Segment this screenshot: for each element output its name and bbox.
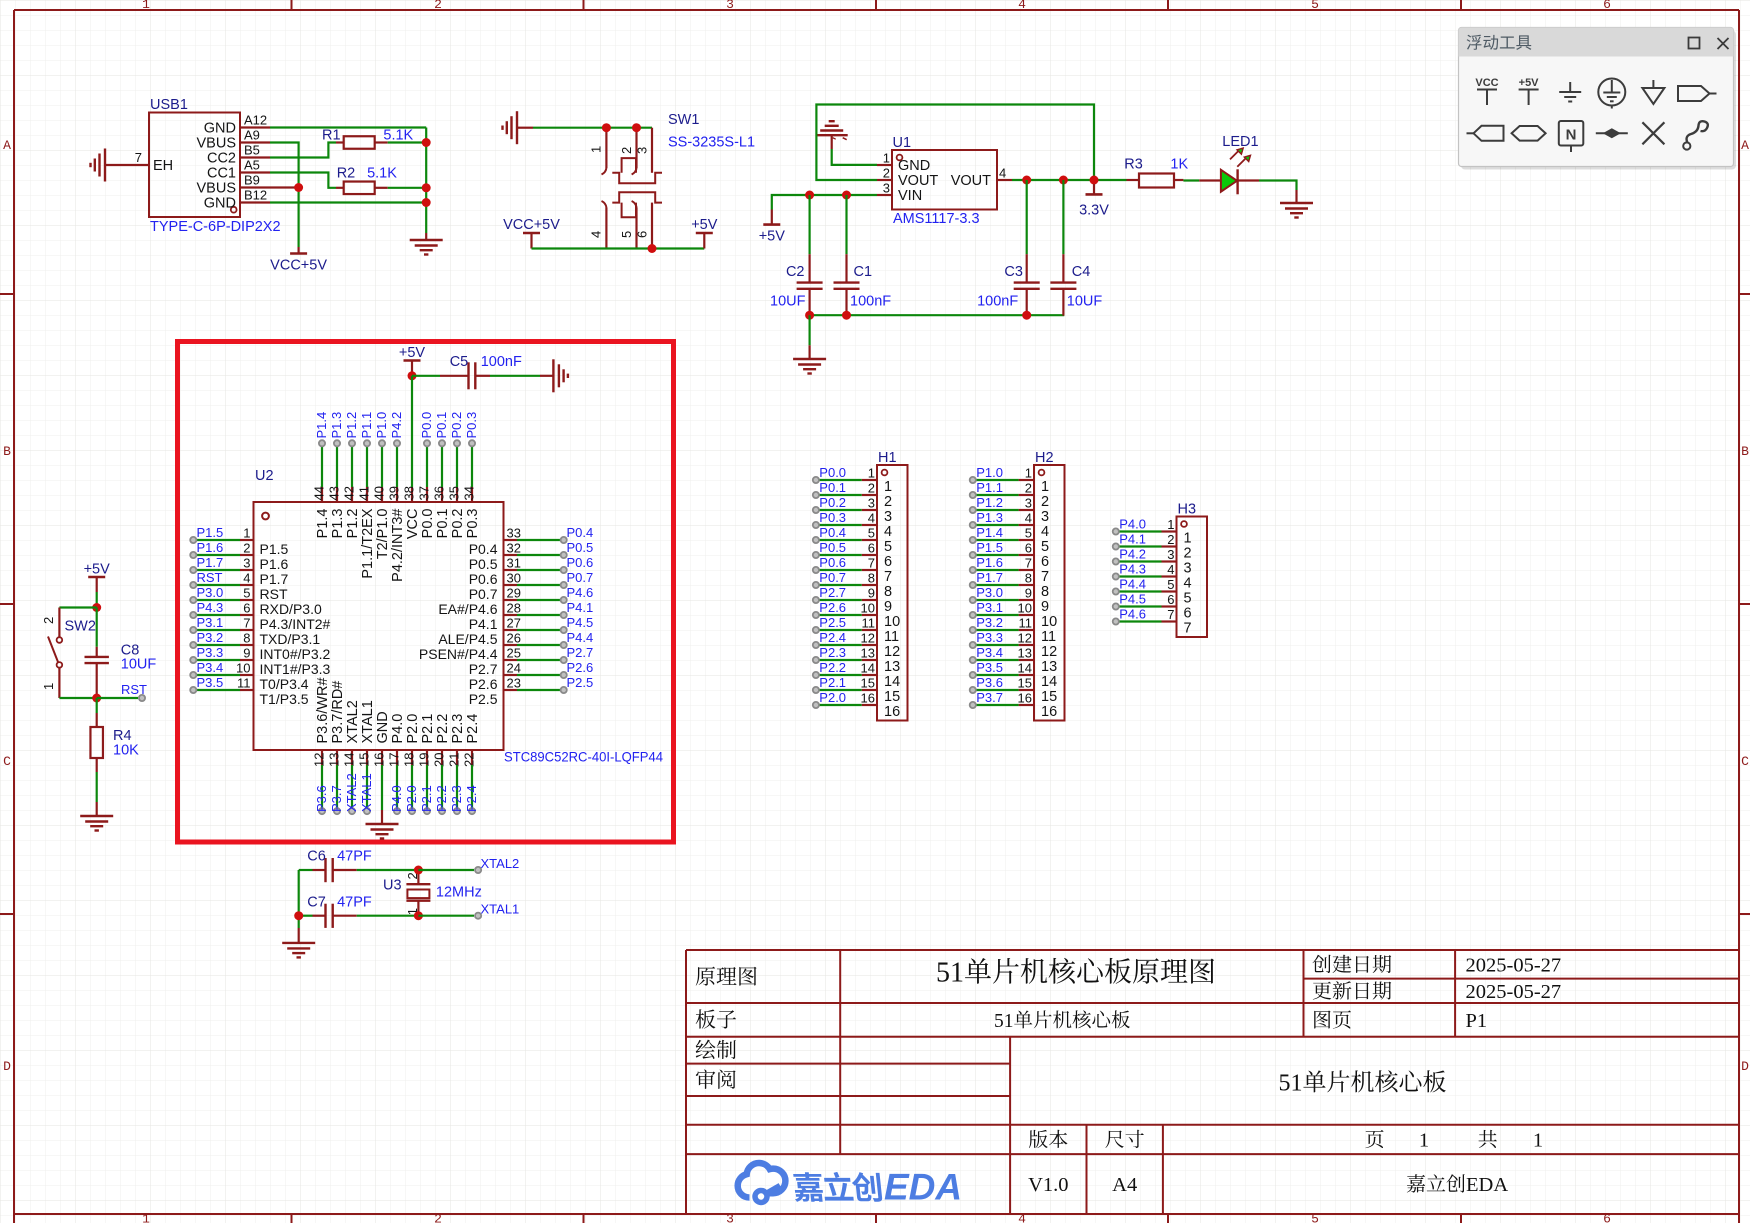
wire U2 top pin 36: [441, 443, 443, 487]
svg-text:P1.4: P1.4: [314, 412, 329, 439]
node P3.1: [970, 600, 1003, 618]
wire U2 right pin 33: [517, 539, 564, 541]
svg-text:A12: A12: [244, 113, 267, 128]
svg-text:100nF: 100nF: [481, 354, 522, 370]
svg-text:P3.2: P3.2: [976, 615, 1003, 630]
svg-text:P3.7/RD#: P3.7/RD#: [330, 681, 346, 744]
svg-text:V1.0: V1.0: [1028, 1174, 1068, 1196]
node P2.0: [404, 785, 419, 814]
svg-text:31: 31: [507, 556, 521, 571]
svg-text:4: 4: [999, 166, 1006, 181]
svg-text:8: 8: [868, 571, 875, 586]
node P1.6: [970, 555, 1003, 573]
svg-text:EH: EH: [153, 158, 173, 174]
wire U2 right pin 25: [517, 659, 564, 661]
svg-text:P3.7: P3.7: [976, 690, 1003, 705]
node XTAL2: [344, 773, 359, 814]
svg-text:U3: U3: [383, 877, 402, 893]
svg-text:P1.6: P1.6: [260, 556, 289, 572]
wire H2 pin 15: [973, 689, 1019, 691]
svg-text:+5V: +5V: [399, 345, 426, 361]
svg-text:19: 19: [417, 753, 432, 767]
svg-text:P2.3: P2.3: [450, 714, 466, 744]
wire U2 top pin 44: [321, 443, 323, 487]
svg-text:P1.4: P1.4: [976, 525, 1003, 540]
svg-text:5.1K: 5.1K: [367, 166, 397, 182]
wire VCC+5V drop: [298, 188, 300, 254]
svg-text:1K: 1K: [1170, 157, 1188, 173]
svg-text:P1.3: P1.3: [976, 510, 1003, 525]
node P0.4: [561, 525, 594, 543]
node P1.3: [329, 412, 344, 447]
junction R2/GND: [422, 183, 431, 192]
node P3.4: [970, 645, 1003, 663]
junction B12/GND: [422, 198, 431, 207]
connector H3: [1162, 502, 1208, 638]
svg-text:P2.5: P2.5: [567, 675, 594, 690]
junction C4 top: [1059, 176, 1068, 185]
svg-text:2: 2: [619, 147, 634, 154]
wire U2 bottom pin 19: [426, 765, 428, 811]
ground at USB1 EH pin: [91, 149, 106, 182]
svg-text:12MHz: 12MHz: [436, 885, 482, 901]
svg-text:6: 6: [1603, 1212, 1611, 1223]
svg-text:P3.6: P3.6: [314, 785, 329, 812]
wire H1 pin 12: [816, 644, 862, 646]
svg-text:ALE/P4.5: ALE/P4.5: [438, 631, 497, 647]
node P0.1: [813, 480, 846, 498]
svg-text:P0.5: P0.5: [819, 540, 846, 555]
power flag VCC+5V: [270, 254, 327, 274]
svg-text:1: 1: [1419, 1130, 1429, 1152]
svg-text:5: 5: [1279, 1071, 1291, 1097]
capacitor C8 10UF: [85, 608, 157, 699]
node P3.0: [190, 585, 223, 603]
svg-text:P3.1: P3.1: [976, 600, 1003, 615]
svg-text:P4.5: P4.5: [567, 615, 594, 630]
wire U2 top pin 34: [471, 443, 473, 487]
svg-text:U2: U2: [255, 468, 274, 484]
svg-text:13: 13: [1041, 659, 1057, 675]
svg-text:32: 32: [507, 541, 521, 556]
svg-text:1: 1: [243, 526, 250, 541]
node P2.0: [813, 690, 846, 708]
wire U2 left pin 10: [193, 674, 240, 676]
wire H3 pin 2: [1116, 545, 1162, 547]
node P4.6: [561, 585, 594, 603]
svg-text:P1: P1: [1466, 1010, 1488, 1032]
wire H2 pin 6: [973, 554, 1019, 556]
svg-text:P2.1: P2.1: [420, 714, 436, 744]
node P2.3: [813, 645, 846, 663]
svg-text:RST: RST: [260, 586, 288, 602]
wire H3 pin 6: [1116, 605, 1162, 607]
svg-text:4: 4: [1041, 524, 1049, 540]
svg-text:R2: R2: [337, 166, 356, 182]
svg-text:B: B: [3, 444, 11, 459]
svg-text:P2.3: P2.3: [819, 645, 846, 660]
node P4.5: [1113, 592, 1146, 610]
svg-text:P1.5: P1.5: [197, 525, 224, 540]
pushbutton SW2: [41, 608, 96, 699]
svg-text:5: 5: [868, 526, 875, 541]
svg-text:C: C: [3, 754, 11, 769]
svg-text:P4.3/INT2#: P4.3/INT2#: [260, 616, 331, 632]
wire U2 bottom pin 18: [411, 765, 413, 811]
svg-text:3: 3: [635, 147, 650, 154]
node P1.5: [970, 540, 1003, 558]
wire SW2 bottom to reset node: [59, 697, 96, 699]
svg-text:SS-3235S-L1: SS-3235S-L1: [668, 135, 755, 151]
svg-text:15: 15: [861, 676, 875, 691]
svg-text:29: 29: [507, 586, 521, 601]
svg-text:2: 2: [434, 1212, 442, 1223]
svg-text:8: 8: [243, 631, 250, 646]
svg-text:P0.7: P0.7: [567, 570, 594, 585]
power flag +5V right of SW1: [691, 217, 718, 249]
svg-text:P1.2: P1.2: [344, 412, 359, 439]
svg-text:C1: C1: [854, 264, 873, 280]
svg-text:P0.4: P0.4: [819, 525, 846, 540]
svg-text:RST: RST: [197, 570, 223, 585]
node P3.1: [190, 615, 223, 633]
svg-text:7: 7: [884, 569, 892, 585]
svg-text:27: 27: [507, 616, 521, 631]
node P0.0: [419, 412, 434, 447]
wire H2 pin 10: [973, 614, 1019, 616]
svg-text:H2: H2: [1035, 450, 1054, 466]
svg-text:30: 30: [507, 571, 521, 586]
ground right of C5: [553, 359, 568, 392]
junction C3 top: [1022, 176, 1031, 185]
wire A5 CC1 to R2: [270, 173, 336, 188]
svg-text:RST: RST: [121, 682, 147, 697]
wire U2 left pin 4: [193, 584, 240, 586]
node P2.3: [449, 785, 464, 814]
node P2.4: [464, 785, 479, 814]
svg-text:P3.4: P3.4: [976, 645, 1003, 660]
ground below C6/C7: [282, 928, 315, 957]
wire U2 right pin 30: [517, 584, 564, 586]
node P3.2: [190, 630, 223, 648]
svg-text:C5: C5: [450, 354, 469, 370]
svg-text:B12: B12: [244, 188, 267, 203]
wire H2 pin 5: [973, 539, 1019, 541]
svg-text:P0.7: P0.7: [819, 570, 846, 585]
node P3.6: [970, 675, 1003, 693]
svg-text:21: 21: [447, 753, 462, 767]
svg-text:P1.1/T2EX: P1.1/T2EX: [360, 508, 376, 578]
svg-text:RXD/P3.0: RXD/P3.0: [260, 601, 322, 617]
svg-text:P4.6: P4.6: [567, 585, 594, 600]
svg-text:1: 1: [1184, 531, 1192, 547]
svg-text:P3.3: P3.3: [197, 645, 224, 660]
node P3.2: [970, 615, 1003, 633]
svg-text:10: 10: [1018, 601, 1032, 616]
svg-text:P0.3: P0.3: [819, 510, 846, 525]
svg-text:39: 39: [387, 486, 402, 500]
svg-text:P0.5: P0.5: [567, 540, 594, 555]
svg-text:3: 3: [883, 181, 890, 196]
svg-text:P0.0: P0.0: [819, 465, 846, 480]
svg-text:13: 13: [884, 659, 900, 675]
svg-text:C2: C2: [786, 264, 805, 280]
svg-text:P4.2: P4.2: [389, 412, 404, 439]
wire H1 pin 7: [816, 569, 862, 571]
node P2.2: [434, 785, 449, 814]
wire H1 pin 3: [816, 509, 862, 511]
wire U2 top pin 40: [381, 443, 383, 487]
node P0.2: [449, 412, 464, 447]
svg-text:XTAL2: XTAL2: [345, 700, 361, 743]
svg-text:P3.0: P3.0: [197, 585, 224, 600]
node XTAL1: [359, 773, 374, 814]
svg-text:P1.6: P1.6: [976, 555, 1003, 570]
svg-text:P0.6: P0.6: [567, 555, 594, 570]
svg-text:P0.1: P0.1: [435, 509, 451, 539]
wire U2 top pin 41: [366, 443, 368, 487]
svg-text:GND: GND: [204, 196, 236, 212]
connector USB1 TYPE-C-6P-DIP2X2: [105, 97, 281, 235]
svg-text:P1.7: P1.7: [976, 570, 1003, 585]
wire H1 pin 9: [816, 599, 862, 601]
svg-text:2: 2: [434, 0, 442, 12]
wire earth to U1 GND pin: [832, 149, 877, 165]
title block table: [686, 950, 1739, 1214]
junction C2 bottom: [805, 311, 814, 320]
svg-text:22: 22: [462, 753, 477, 767]
wire U2 right pin 28: [517, 614, 564, 616]
svg-text:2: 2: [868, 481, 875, 496]
wire H1 pin 1: [816, 479, 862, 481]
svg-text:7: 7: [868, 556, 875, 571]
svg-text:N: N: [1566, 127, 1577, 144]
junction SW1 top pin1: [602, 123, 611, 132]
node P3.4: [190, 660, 223, 678]
wire ground to SW1 pins: [517, 127, 652, 129]
power flag +5V at U1 VIN: [759, 210, 786, 245]
highlight selection rectangle: [178, 342, 674, 843]
svg-text:3: 3: [726, 1212, 734, 1223]
wire +5V to reset node: [96, 592, 98, 608]
node P3.5: [970, 660, 1003, 678]
wire U2 right pin 29: [517, 599, 564, 601]
svg-text:P4.2: P4.2: [1119, 547, 1146, 562]
junction C3 bottom: [1022, 311, 1031, 320]
svg-text:14: 14: [342, 753, 357, 767]
wire U2 right pin 31: [517, 569, 564, 571]
power flag +5V at reset: [84, 562, 111, 593]
svg-text:C6: C6: [307, 849, 326, 865]
node P1.6: [190, 540, 223, 558]
node P4.6: [1113, 607, 1146, 625]
wire U2 left pin 1: [193, 539, 240, 541]
resistor R4 10K: [90, 698, 139, 802]
wire U2 right pin 23: [517, 689, 564, 691]
wire R2 to GND rail: [388, 187, 427, 189]
node P1.7: [190, 555, 223, 573]
node P2.6: [813, 600, 846, 618]
node P2.2: [813, 660, 846, 678]
svg-text:12: 12: [1041, 644, 1057, 660]
svg-text:6: 6: [1025, 541, 1032, 556]
svg-text:12: 12: [1018, 631, 1032, 646]
svg-text:STC89C52RC-40I-LQFP44: STC89C52RC-40I-LQFP44: [504, 749, 663, 765]
node P4.1: [561, 600, 594, 618]
wire H1 pin 13: [816, 659, 862, 661]
wire H3 pin 7: [1116, 620, 1162, 622]
svg-text:14: 14: [884, 674, 900, 690]
svg-text:11: 11: [884, 629, 899, 645]
node P1.4: [314, 412, 329, 447]
svg-text:6: 6: [635, 231, 650, 238]
svg-text:11: 11: [1041, 629, 1056, 645]
node P0.3: [464, 412, 479, 447]
wire H2 pin 4: [973, 524, 1019, 526]
svg-text:EDA: EDA: [1466, 1174, 1508, 1196]
svg-text:P4.1: P4.1: [469, 616, 498, 632]
connector H2: [1018, 450, 1065, 721]
svg-text:14: 14: [861, 661, 875, 676]
node P1.4: [970, 525, 1003, 543]
node P2.5: [561, 675, 594, 693]
title block texts: [696, 955, 1561, 1197]
node P1.3: [970, 510, 1003, 528]
svg-text:5: 5: [1041, 539, 1049, 555]
svg-text:P2.6: P2.6: [469, 676, 498, 692]
svg-text:16: 16: [372, 753, 387, 767]
wire U2 left pin 11: [193, 689, 240, 691]
svg-text:17: 17: [387, 753, 402, 767]
svg-text:P2.7: P2.7: [819, 585, 846, 600]
wire H1 pin 2: [816, 494, 862, 496]
svg-text:VOUT: VOUT: [951, 173, 991, 189]
svg-text:P0.2: P0.2: [819, 495, 846, 510]
svg-text:1: 1: [1041, 479, 1049, 495]
svg-text:3: 3: [726, 0, 734, 12]
node P2.7: [561, 645, 594, 663]
svg-text:13: 13: [1018, 646, 1032, 661]
svg-text:47PF: 47PF: [337, 895, 372, 911]
wire LED1 to ground: [1259, 181, 1297, 191]
wire H2 pin 1: [973, 479, 1019, 481]
svg-text:1: 1: [1533, 1130, 1543, 1152]
svg-text:P2.4: P2.4: [819, 630, 846, 645]
svg-text:10: 10: [236, 661, 250, 676]
svg-text:VBUS: VBUS: [197, 181, 237, 197]
svg-text:33: 33: [507, 526, 521, 541]
svg-text:P1.5: P1.5: [976, 540, 1003, 555]
svg-text:3: 3: [1167, 547, 1174, 562]
svg-text:11: 11: [862, 616, 876, 631]
svg-text:12: 12: [312, 753, 327, 767]
svg-text:SW2: SW2: [65, 619, 96, 635]
earth ground above U1: [816, 121, 848, 149]
svg-text:C3: C3: [1004, 264, 1023, 280]
wire U2 bottom pin 14: [351, 765, 353, 811]
node P0.4: [813, 525, 846, 543]
svg-text:P4.1: P4.1: [1119, 532, 1146, 547]
svg-text:7: 7: [1025, 556, 1032, 571]
svg-text:P0.2: P0.2: [450, 509, 466, 539]
node P0.0: [813, 465, 846, 483]
node P0.3: [813, 510, 846, 528]
junction crystal top: [414, 866, 423, 875]
capacitor C2 10UF: [770, 195, 823, 315]
svg-text:VCC: VCC: [405, 509, 421, 540]
svg-text:6: 6: [1167, 592, 1174, 607]
wire H3 pin 1: [1116, 530, 1162, 532]
resistor R3 1K: [1124, 157, 1188, 188]
svg-text:VBUS: VBUS: [197, 136, 237, 152]
wire H3 pin 5: [1116, 590, 1162, 592]
junction 3.3V tap: [1090, 176, 1099, 185]
node RST: [190, 570, 222, 588]
svg-text:P2.0: P2.0: [405, 714, 421, 744]
node P1.0: [374, 412, 389, 447]
wire R1 to GND rail: [388, 141, 427, 143]
node P0.6: [813, 555, 846, 573]
svg-text:P3.3: P3.3: [976, 630, 1003, 645]
wire U2 top pin 42: [351, 443, 353, 487]
svg-text:P0.5: P0.5: [469, 556, 498, 572]
wire U2 left pin 9: [193, 659, 240, 661]
svg-text:3: 3: [1041, 509, 1049, 525]
svg-text:P1.0: P1.0: [374, 412, 389, 439]
svg-text:100nF: 100nF: [977, 294, 1018, 310]
svg-text:P1.6: P1.6: [197, 540, 224, 555]
wire to SW2: [59, 606, 96, 608]
svg-text:6: 6: [1603, 0, 1611, 12]
svg-text:P0.4: P0.4: [567, 525, 594, 540]
svg-text:P0.1: P0.1: [434, 412, 449, 439]
node P1.2: [970, 495, 1003, 513]
ground below GND rail: [410, 233, 443, 255]
svg-text:1: 1: [1025, 466, 1032, 481]
svg-text:C4: C4: [1072, 264, 1091, 280]
svg-text:3.3V: 3.3V: [1079, 203, 1109, 219]
svg-text:6: 6: [243, 601, 250, 616]
svg-text:P4.0: P4.0: [1119, 517, 1146, 532]
wire H1 pin 14: [816, 674, 862, 676]
svg-text:P0.3: P0.3: [464, 412, 479, 439]
node P1.5: [190, 525, 223, 543]
svg-text:P0.3: P0.3: [465, 509, 481, 539]
wire H2 pin 11: [973, 629, 1019, 631]
node P3.7: [970, 690, 1003, 708]
svg-text:5: 5: [243, 586, 250, 601]
svg-text:10UF: 10UF: [770, 294, 806, 310]
svg-text:8: 8: [1041, 584, 1049, 600]
wire U2 left pin 6: [193, 614, 240, 616]
svg-text:4: 4: [1018, 0, 1026, 12]
svg-text:10: 10: [1041, 614, 1057, 630]
node P1.1: [970, 480, 1003, 498]
wire H2 pin 13: [973, 659, 1019, 661]
svg-text:B5: B5: [244, 143, 260, 158]
junction C1 bottom: [842, 311, 851, 320]
svg-text:P2.6: P2.6: [567, 660, 594, 675]
svg-text:5: 5: [1184, 591, 1192, 607]
svg-text:LED1: LED1: [1222, 134, 1258, 150]
svg-text:A5: A5: [244, 158, 260, 173]
node P4.4: [1113, 577, 1146, 595]
node P0.7: [561, 570, 594, 588]
svg-text:43: 43: [327, 486, 342, 500]
wire H2 pin 7: [973, 569, 1019, 571]
wire U2 left pin 3: [193, 569, 240, 571]
svg-text:16: 16: [1018, 691, 1032, 706]
